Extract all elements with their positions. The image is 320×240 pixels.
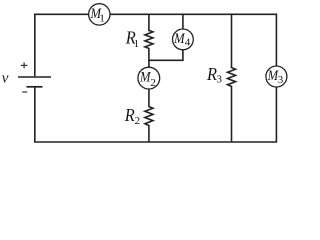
minus sign — [22, 91, 27, 93]
meter M1 circle — [89, 4, 110, 25]
svg-text:R: R — [206, 64, 217, 84]
wire: M4 stub to top wire — [182, 14, 184, 29]
svg-text:1: 1 — [134, 38, 140, 50]
svg-text:v: v — [2, 70, 9, 86]
svg-text:4: 4 — [185, 37, 191, 49]
wire: top-left segment and left edge down to battery — [35, 14, 89, 76]
resistor R2 branch: from M2 bottom through zigzag to bottom wire — [145, 89, 153, 142]
svg-text:3: 3 — [217, 74, 223, 86]
meter M4 circle — [173, 29, 194, 50]
resistor R1 branch: from top wire through zigzag down to M2 — [145, 14, 153, 67]
wire: connector from node below R1 to M4 branch — [149, 50, 183, 60]
meter M3 circle — [266, 66, 287, 87]
svg-text:R: R — [124, 105, 135, 125]
meter M2 circle — [138, 67, 160, 89]
svg-text:2: 2 — [135, 115, 141, 127]
battery v: long positive plate — [18, 76, 51, 78]
wire: top edge from M1 to top-right corner, right edge down to M3 — [110, 14, 276, 66]
wire: right edge below M3, bottom edge, left edge up to battery — [35, 87, 277, 142]
svg-text:3: 3 — [278, 74, 284, 86]
resistor R3 branch: from top wire through zigzag to bottom wire — [228, 14, 236, 142]
plus sign — [21, 62, 28, 68]
battery v: short negative plate — [27, 86, 43, 88]
svg-text:2: 2 — [150, 77, 156, 89]
svg-text:1: 1 — [99, 12, 105, 24]
